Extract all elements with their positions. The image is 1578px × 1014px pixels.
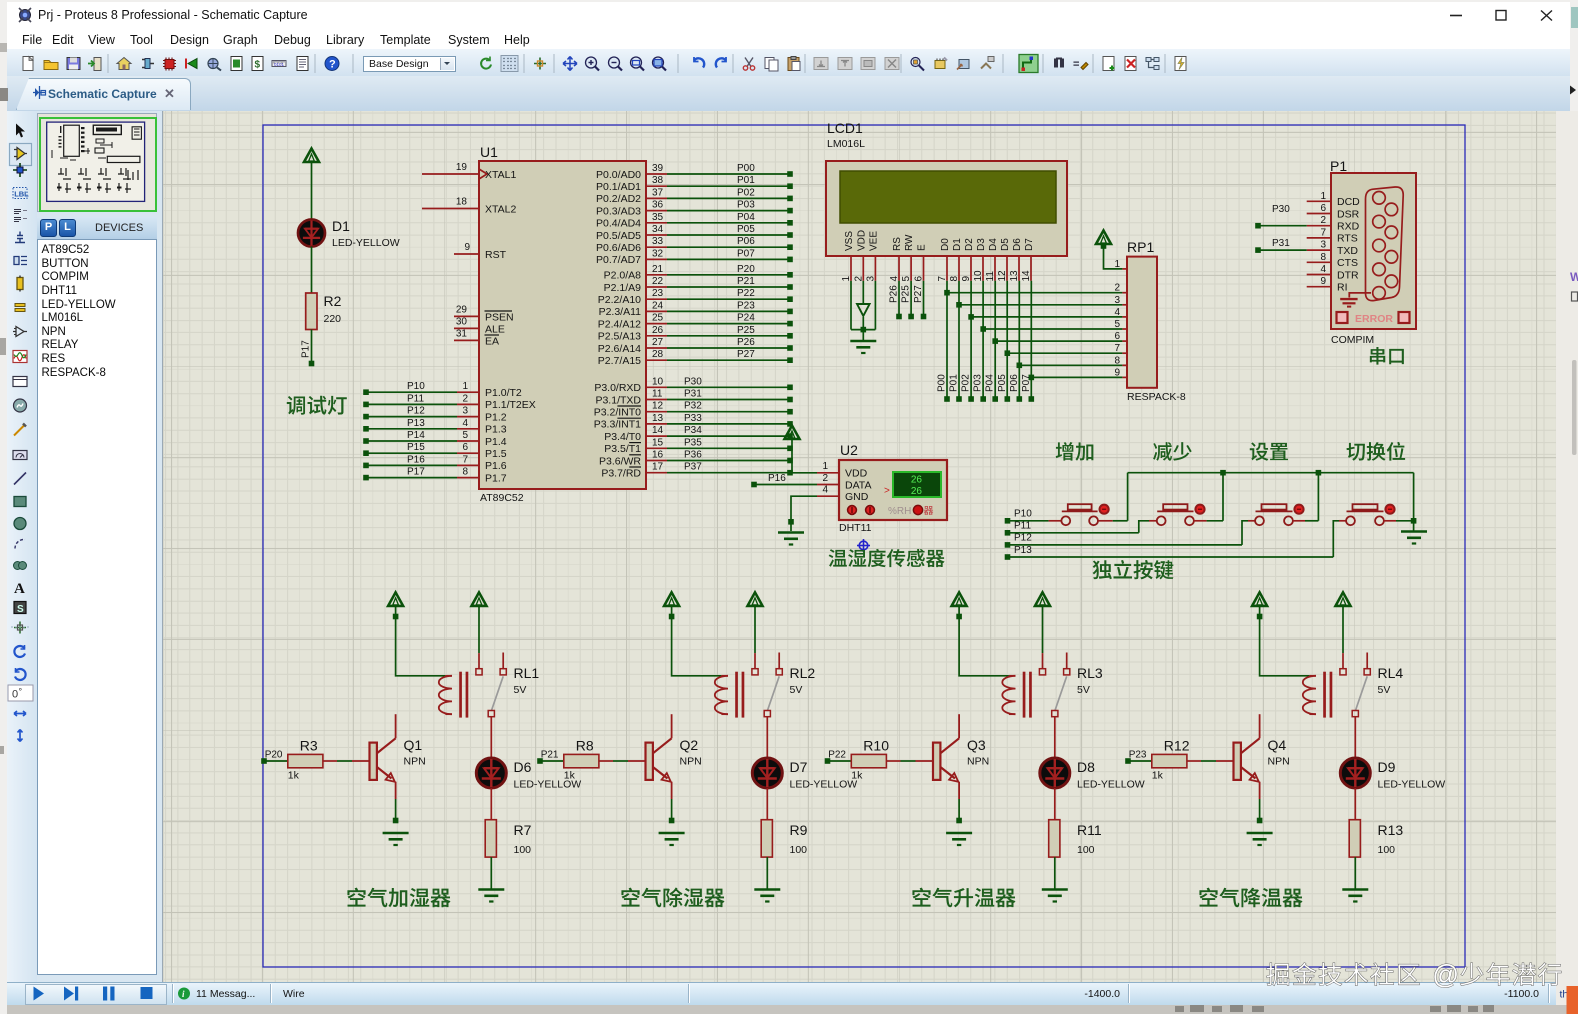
svg-text:ALE: ALE: [485, 323, 505, 335]
svg-text:8: 8: [1320, 252, 1326, 263]
svg-text:6: 6: [1114, 331, 1120, 342]
svg-text:P15: P15: [407, 442, 425, 453]
ground (buttons): [1401, 530, 1427, 533]
svg-text:3: 3: [1320, 240, 1326, 251]
U1 pin 33 P0.6/AD6 / net P06 wire: [596, 236, 793, 254]
LCD1 pin 3 VEE: [865, 231, 879, 282]
svg-text:P0.0/AD0: P0.0/AD0: [596, 169, 641, 181]
svg-text:P00: P00: [737, 163, 755, 174]
svg-text:P11: P11: [407, 393, 424, 404]
annotation: air dehumidifier: [621, 888, 724, 908]
minimap mini-schematic: [47, 122, 145, 201]
svg-text:NPN: NPN: [1268, 756, 1290, 768]
svg-text:LED-YELLOW: LED-YELLOW: [332, 237, 400, 249]
wire D8 to R11: [1054, 788, 1056, 820]
svg-text:11 Messag...: 11 Messag...: [196, 988, 255, 1000]
ground (U2): [778, 531, 804, 534]
svg-text:DSR: DSR: [1337, 208, 1360, 220]
ground (LED branch): [754, 888, 780, 891]
svg-text:28: 28: [652, 349, 664, 360]
svg-text:P07: P07: [737, 248, 755, 259]
svg-text:D8: D8: [1077, 759, 1095, 775]
svg-text:10: 10: [973, 270, 984, 282]
svg-text:°: °: [19, 687, 23, 697]
net P10..P13 terminals and wires: [1005, 509, 1033, 560]
LCD1 data D2 wire to RP1 and net P02: [961, 281, 1127, 402]
push button (increase): [1010, 504, 1128, 525]
ground (emitter): [946, 832, 972, 835]
power terminal (VCC) for RL3 contact: [1035, 592, 1050, 653]
P1 pin 7 RTS: [1307, 227, 1358, 244]
svg-text:1: 1: [1114, 259, 1120, 270]
svg-text:D2: D2: [964, 238, 975, 251]
svg-text:5V: 5V: [790, 684, 803, 696]
svg-text:23: 23: [652, 288, 664, 299]
svg-text:R8: R8: [576, 738, 594, 754]
svg-text:P02: P02: [961, 374, 972, 392]
svg-text:1: 1: [462, 381, 468, 392]
U2 pin 1 VDD: [817, 461, 839, 473]
LCD1 pin 6 E: [914, 244, 928, 282]
U1 pin 19 XTAL1: [422, 162, 516, 181]
svg-text:100: 100: [1077, 844, 1095, 856]
svg-text:LED-YELLOW: LED-YELLOW: [1378, 779, 1446, 791]
sensor U2 DHT11 body: [839, 442, 947, 534]
svg-text:19: 19: [456, 162, 468, 173]
svg-text:2: 2: [853, 276, 864, 282]
svg-text:D3: D3: [976, 238, 987, 251]
svg-text:VDD: VDD: [856, 230, 867, 251]
svg-text:7: 7: [462, 454, 468, 465]
svg-text:D1: D1: [952, 238, 963, 251]
svg-text:1k: 1k: [288, 770, 300, 782]
transistor Q3 NPN: [933, 714, 989, 823]
svg-text:P1.2: P1.2: [485, 411, 507, 423]
svg-text:P33: P33: [684, 413, 702, 424]
svg-text:RL4: RL4: [1378, 665, 1404, 681]
svg-text:P0.5/AD5: P0.5/AD5: [596, 230, 641, 242]
svg-text:5: 5: [901, 276, 912, 282]
U1 pin 2 P1.1/T2EX / net P11 wire: [363, 393, 536, 411]
svg-text:R12: R12: [1164, 738, 1190, 754]
svg-text:1: 1: [841, 276, 852, 282]
power terminal (VCC) for RL3 coil: [952, 592, 1009, 675]
svg-text:P3.5/T1: P3.5/T1: [604, 443, 641, 455]
wire R11 to ground: [1054, 857, 1056, 889]
relay RL4 5V coil: [1303, 665, 1404, 718]
svg-text:5: 5: [1114, 319, 1120, 330]
LED D9 (LED-YELLOW): [1340, 758, 1445, 791]
ground (LED branch): [478, 888, 504, 891]
svg-text:2: 2: [1114, 283, 1120, 294]
annotation: air heater: [912, 888, 1015, 908]
LED D8 (LED-YELLOW): [1040, 758, 1145, 791]
power terminal (VCC) for RL2 contact: [748, 592, 763, 653]
svg-text:P16: P16: [768, 473, 786, 484]
relay RL3 5V coil: [1002, 665, 1103, 718]
svg-text:P06: P06: [1009, 374, 1020, 392]
svg-text:6: 6: [462, 442, 468, 453]
svg-text:220: 220: [324, 313, 342, 325]
svg-text:DTR: DTR: [1337, 269, 1359, 281]
svg-text:0: 0: [12, 689, 18, 701]
svg-text:GND: GND: [845, 491, 869, 503]
RP1 pin 4: [1114, 307, 1120, 318]
svg-text:37: 37: [652, 187, 664, 198]
resistor R9 100: [761, 820, 807, 857]
svg-text:9: 9: [1320, 276, 1326, 287]
svg-text:7: 7: [1320, 227, 1326, 238]
svg-text:P0.6/AD6: P0.6/AD6: [596, 242, 641, 254]
net P31 wire to P1.TXD: [1255, 238, 1307, 253]
svg-text:P20: P20: [265, 750, 283, 761]
svg-text:P0.2/AD2: P0.2/AD2: [596, 193, 641, 205]
svg-text:RP1: RP1: [1127, 239, 1154, 255]
ground (LED branch): [1342, 888, 1368, 891]
U1 pin 28 P2.7/A15 / net P27 wire: [598, 349, 793, 367]
U2 pin 2 DATA / net P16: [751, 473, 839, 487]
svg-text:TXD: TXD: [1337, 245, 1358, 257]
U1 pin 25 P2.4/A12 / net P24 wire: [598, 313, 793, 331]
U1 pin 32 P0.7/AD7 / net P07 wire: [596, 248, 793, 266]
svg-text:1k: 1k: [1152, 770, 1164, 782]
P1 pin 9 RI: [1307, 276, 1348, 293]
U1 pin 30 ALE: [454, 316, 505, 335]
annotation: increase: [1056, 442, 1094, 461]
wire R13 to ground: [1354, 857, 1356, 889]
net P30 wire to P1.RXD: [1255, 204, 1307, 229]
svg-text:P37: P37: [684, 462, 702, 473]
svg-text:P1: P1: [1330, 158, 1347, 174]
wire D6 to R7: [490, 788, 492, 820]
svg-text:RL2: RL2: [790, 665, 816, 681]
P1 pin 1 DCD: [1307, 191, 1360, 208]
svg-text:18: 18: [456, 197, 468, 208]
annotation: set: [1250, 442, 1288, 460]
svg-text:6: 6: [1320, 203, 1326, 214]
P1 pin 8 CTS: [1307, 252, 1358, 269]
U1 pin 17 P3.7/RD / net P37 wire: [601, 462, 792, 480]
svg-text:27: 27: [652, 337, 664, 348]
svg-text:P21: P21: [541, 750, 559, 761]
svg-text:$: $: [255, 60, 261, 71]
svg-text:P25: P25: [901, 285, 912, 303]
power terminal (VCC) for RL4 coil: [1252, 592, 1309, 675]
svg-text:S: S: [17, 604, 24, 615]
svg-text:R2: R2: [324, 293, 342, 309]
U1 pin 21 P2.0/A8 / net P20 wire: [604, 264, 793, 282]
svg-text:P16: P16: [407, 454, 425, 465]
svg-text:NPN: NPN: [404, 756, 426, 768]
LCD LCD1 LM016L body: [826, 120, 1067, 256]
LCD1 pin 14 D7: [1021, 238, 1035, 282]
svg-text:P1.7: P1.7: [485, 472, 507, 484]
svg-text:8: 8: [462, 467, 468, 478]
svg-text:P0.3/AD3: P0.3/AD3: [596, 205, 641, 217]
svg-text:17: 17: [652, 462, 664, 473]
watermark: [1267, 960, 1561, 990]
svg-text:P26: P26: [889, 285, 900, 303]
svg-text:P35: P35: [684, 437, 702, 448]
svg-text:Q1: Q1: [404, 737, 423, 753]
LCD1 P26 wire terminal: [889, 281, 902, 320]
wire R9 to ground: [766, 857, 768, 889]
power terminal (VCC) for U2: [785, 426, 818, 473]
svg-text:XTAL1: XTAL1: [485, 169, 516, 181]
button common rail wire: [1128, 470, 1417, 531]
power terminal (VCC) for RL1 coil: [388, 592, 445, 675]
svg-text:26: 26: [911, 475, 923, 486]
svg-text:COMPIM: COMPIM: [1331, 334, 1374, 346]
svg-text:RL3: RL3: [1077, 665, 1103, 681]
svg-text:26: 26: [652, 325, 664, 336]
svg-text:P06: P06: [737, 236, 755, 247]
svg-text:P32: P32: [684, 401, 702, 412]
svg-text:%RH: %RH: [888, 506, 911, 517]
svg-text:32: 32: [652, 248, 664, 259]
RP1 pin 9: [1114, 367, 1120, 378]
svg-text:P1.4: P1.4: [485, 436, 507, 448]
svg-text:P13: P13: [1014, 545, 1032, 556]
svg-text:A: A: [14, 581, 25, 597]
svg-text:P01: P01: [737, 175, 755, 186]
U1 pin 38 P0.1/AD1 / net P01 wire: [596, 175, 793, 193]
RP1 pin 7: [1114, 343, 1120, 354]
svg-text:EA: EA: [485, 335, 499, 347]
svg-text:AT89C52: AT89C52: [480, 492, 524, 504]
U1 pin 5 P1.4 / net P14 wire: [363, 430, 507, 448]
U1 pin 35 P0.4/AD4 / net P04 wire: [596, 212, 793, 230]
svg-text:P26: P26: [737, 337, 755, 348]
svg-text:5: 5: [462, 430, 468, 441]
svg-text:5V: 5V: [1077, 684, 1090, 696]
svg-text:P00: P00: [937, 374, 948, 392]
LCD1 pin 12 D5: [997, 238, 1011, 282]
svg-text:P31: P31: [1272, 238, 1290, 249]
svg-text:P05: P05: [997, 374, 1008, 392]
power terminal (VCC) for RL1 contact: [472, 592, 487, 653]
svg-text:8: 8: [1114, 355, 1120, 366]
LCD1 pin 1 VSS: [841, 231, 855, 282]
svg-text:>: >: [884, 486, 890, 497]
svg-text:P3.1/TXD: P3.1/TXD: [595, 394, 641, 406]
annotation: independent keys: [1093, 560, 1174, 579]
svg-text:RESPACK-8: RESPACK-8: [1127, 391, 1186, 403]
LCD1 P25 wire terminal: [901, 281, 914, 320]
U1 pin 24 P2.3/A11 / net P23 wire: [599, 300, 793, 318]
svg-text:P3.7/RD: P3.7/RD: [601, 468, 641, 480]
svg-text:P1.5: P1.5: [485, 448, 507, 460]
svg-text:11: 11: [652, 389, 663, 400]
svg-text:U2: U2: [840, 442, 858, 458]
U1 pin 18 XTAL2: [422, 197, 516, 216]
U1 pin 39 P0.0/AD0 / net P00 wire: [596, 163, 793, 181]
wire R7 to ground: [490, 857, 492, 889]
svg-text:DCD: DCD: [1337, 196, 1360, 208]
relay RL2 switch contacts: [752, 653, 782, 758]
svg-text:P3.3/INT1: P3.3/INT1: [594, 419, 641, 431]
svg-text:7: 7: [937, 276, 948, 282]
svg-text:P27: P27: [737, 349, 755, 360]
svg-text:4: 4: [462, 418, 468, 429]
svg-text:P3.6/WR: P3.6/WR: [599, 455, 641, 467]
annotation: air humidifier: [347, 888, 450, 908]
svg-text:P2.5/A13: P2.5/A13: [598, 331, 641, 343]
resistor R7 100: [485, 820, 531, 857]
resistor R13 100: [1349, 820, 1403, 857]
svg-text:RL1: RL1: [514, 665, 540, 681]
LCD1 data D0 wire to RP1 and net P00: [937, 281, 1128, 402]
svg-text:12: 12: [997, 270, 1008, 282]
svg-text:P14: P14: [407, 430, 425, 441]
status bar animation buttons: [34, 987, 153, 1001]
svg-text:30: 30: [456, 316, 468, 327]
svg-text:XTAL2: XTAL2: [485, 204, 516, 216]
svg-text:1: 1: [1320, 191, 1326, 202]
svg-text:RST: RST: [485, 249, 507, 261]
svg-text:5V: 5V: [514, 684, 527, 696]
svg-text:1k: 1k: [851, 770, 863, 782]
svg-text:PSEN: PSEN: [485, 311, 514, 323]
svg-text:R9: R9: [790, 822, 808, 838]
annotation: debug lamp: [287, 396, 347, 415]
IC U1 AT89C52 body: [479, 144, 646, 504]
LCD1 data D7 wire to RP1 and net P07: [1021, 281, 1127, 402]
push button (shift digit): [1010, 504, 1414, 557]
svg-text:D9: D9: [1378, 759, 1396, 775]
svg-text:P2.7/A15: P2.7/A15: [598, 355, 641, 367]
serial connector P1 COMPIM body: [1330, 158, 1416, 346]
LCD1 pin 7 D0: [937, 238, 951, 282]
svg-text:2: 2: [1320, 215, 1326, 226]
svg-text:P2.6/A14: P2.6/A14: [598, 343, 641, 355]
resistor pack RP1 RESPACK-8: [1114, 239, 1185, 403]
svg-text:R3: R3: [300, 738, 318, 754]
svg-text:RS: RS: [892, 237, 903, 251]
svg-text:35: 35: [652, 212, 664, 223]
LCD1 pin 8 D1: [949, 238, 963, 282]
svg-text:14: 14: [1021, 270, 1032, 282]
svg-text:4: 4: [822, 485, 828, 496]
LCD1 pin 2 VDD: [853, 230, 867, 282]
svg-text:P22: P22: [737, 288, 755, 299]
svg-text:?: ?: [329, 59, 336, 71]
svg-text:4: 4: [1320, 264, 1326, 275]
svg-text:P07: P07: [1021, 374, 1032, 392]
svg-text:P30: P30: [1272, 204, 1290, 215]
svg-text:D7: D7: [790, 759, 808, 775]
svg-text:P25: P25: [737, 325, 755, 336]
svg-text:9: 9: [1114, 367, 1120, 378]
ground (emitter): [659, 832, 685, 835]
svg-text:16: 16: [652, 450, 664, 461]
svg-text:3: 3: [462, 406, 468, 417]
svg-text:100: 100: [1378, 844, 1396, 856]
svg-text:R11: R11: [1077, 822, 1102, 838]
svg-text:P03: P03: [973, 374, 984, 392]
svg-text:P10: P10: [1014, 509, 1032, 520]
U1 pin 4 P1.3 / net P13 wire: [363, 418, 507, 436]
svg-text:P3.0/RXD: P3.0/RXD: [594, 382, 641, 394]
U1 pin 15 P3.5/T1 / net P35 wire: [604, 437, 793, 455]
svg-text:P01: P01: [949, 374, 960, 392]
svg-text:P21: P21: [737, 276, 755, 287]
svg-text:ERROR: ERROR: [1355, 313, 1393, 325]
svg-text:LED-YELLOW: LED-YELLOW: [1077, 779, 1145, 791]
annotation: serial port: [1370, 347, 1404, 365]
wire D7 to R9: [766, 788, 768, 820]
window title icon: [19, 8, 31, 22]
svg-text:14: 14: [652, 425, 664, 436]
svg-text:P13: P13: [407, 418, 425, 429]
svg-text:D7: D7: [1024, 238, 1035, 251]
svg-text:34: 34: [652, 224, 664, 235]
svg-text:P3.2/INT0: P3.2/INT0: [594, 407, 641, 419]
resistor R8 1k / net P21: [537, 738, 645, 782]
resistor R3 1k / net P20: [261, 738, 369, 782]
svg-text:7: 7: [1114, 343, 1120, 354]
svg-text:R7: R7: [514, 822, 532, 838]
LCD1 data D4 wire to RP1 and net P04: [985, 281, 1127, 402]
annotation: shift digit: [1346, 442, 1405, 461]
svg-text:2: 2: [462, 393, 468, 404]
RP1 pin 5: [1114, 319, 1120, 330]
transistor Q2 NPN: [646, 714, 702, 823]
svg-text:=: =: [1073, 59, 1079, 71]
tab icon: [33, 86, 46, 99]
U1 pin 37 P0.2/AD2 / net P02 wire: [596, 187, 793, 205]
U1 pin 29 PSEN: [454, 304, 514, 323]
relay RL2 5V coil: [715, 665, 816, 718]
ground (LED branch): [1042, 888, 1068, 891]
LCD1 data D3 wire to RP1 and net P03: [973, 281, 1127, 402]
svg-text:D6: D6: [1012, 238, 1023, 251]
RP1 pin 8: [1114, 355, 1120, 366]
svg-text:25: 25: [652, 313, 664, 324]
svg-text:P2.0/A8: P2.0/A8: [604, 270, 642, 282]
svg-text:@: @: [1432, 960, 1459, 990]
U1 pin 13 P3.3/INT1 / net P33 wire: [594, 413, 793, 431]
annotation: temperature/humidity sensor: [829, 549, 945, 567]
P1 pin 6 DSR: [1307, 203, 1360, 220]
svg-text:1: 1: [822, 461, 828, 472]
svg-text:NPN: NPN: [967, 756, 989, 768]
svg-text:CTS: CTS: [1337, 257, 1358, 269]
svg-text:P12: P12: [1014, 533, 1032, 544]
status bar message icon/text: [178, 988, 1568, 1001]
svg-text:Q4: Q4: [1268, 737, 1287, 753]
LED D6 (LED-YELLOW): [476, 758, 581, 791]
svg-text:-1100.0: -1100.0: [1504, 988, 1539, 1000]
svg-text:P0.7/AD7: P0.7/AD7: [596, 254, 641, 266]
svg-text:P17: P17: [301, 340, 312, 358]
svg-text:R10: R10: [863, 738, 889, 754]
power terminal (VCC) for RL4 contact: [1336, 592, 1351, 653]
svg-text:2: 2: [822, 473, 828, 484]
window buttons: [1450, 11, 1552, 21]
svg-text:100: 100: [790, 844, 808, 856]
svg-text:VDD: VDD: [845, 468, 868, 480]
svg-text:12: 12: [652, 401, 664, 412]
LCD1 pin 9 D2: [961, 238, 975, 282]
svg-text:D4: D4: [988, 238, 999, 251]
svg-text:RXD: RXD: [1337, 221, 1360, 233]
U1 pin 9 RST: [454, 242, 507, 261]
svg-text:P2.2/A10: P2.2/A10: [598, 294, 641, 306]
U1 pin 16 P3.6/WR / net P36 wire: [599, 450, 793, 468]
svg-text:P2.3/A11: P2.3/A11: [599, 306, 642, 318]
transistor Q1 NPN: [370, 714, 426, 823]
